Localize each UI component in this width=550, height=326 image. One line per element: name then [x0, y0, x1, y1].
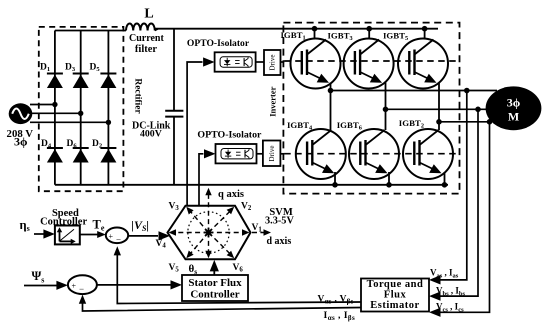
wire phase B to motor [386, 108, 487, 110]
center asterisk node [204, 228, 214, 238]
svg-text:Rectifier: Rectifier [133, 78, 143, 114]
arrow into flux summing junction [79, 295, 86, 304]
arrow into stator flux controller [171, 280, 183, 289]
arrow into upper opto-isolator [203, 57, 215, 66]
svg-text:Estimator: Estimator [370, 300, 419, 311]
svg-text:400V: 400V [140, 129, 162, 140]
wire sense line phase C [440, 122, 490, 312]
svg-text:d axis: d axis [267, 236, 292, 247]
wire leg B midpoint [385, 83, 387, 131]
diode D6 [73, 148, 89, 163]
drive block upper [264, 50, 281, 75]
wire drive lower to inverter [280, 153, 284, 155]
IGBT4 [296, 129, 346, 179]
svg-text:3.3-5V: 3.3-5V [265, 216, 294, 227]
dashed q axis [208, 194, 210, 233]
junction dot bottom bus leg B [386, 182, 392, 188]
inverter dashed enclosure [283, 23, 459, 194]
arrow into speed controller [43, 229, 55, 238]
svg-text:M: M [508, 109, 519, 123]
speed controller block [55, 226, 80, 245]
arrow Vbs Ibs into estimator [429, 292, 441, 301]
torque and flux estimator block [361, 279, 429, 312]
svg-text:IGBT6: IGBT6 [337, 120, 362, 132]
svg-text:L: L [144, 7, 153, 22]
wire sense line phase B [440, 109, 478, 296]
wire AC phase c [30, 121, 108, 123]
wire flux summing to stator flux controller [97, 284, 171, 286]
junction dot top bus leg A [312, 26, 318, 32]
svg-text:Current: Current [129, 33, 164, 44]
junction dot sense tap phase B [475, 107, 481, 113]
dashed vector V3 [191, 212, 209, 233]
wire flux reference [24, 285, 59, 287]
wire phase C to motor [439, 121, 492, 123]
wire alpha-beta voltage feedback to torque summing [117, 250, 361, 304]
dotted flux circle [188, 212, 229, 253]
stator flux controller block [182, 275, 248, 301]
dashed vector V2 [209, 212, 230, 233]
svg-text:3ϕ: 3ϕ [14, 135, 28, 149]
svg-text:IGBT2: IGBT2 [399, 118, 424, 130]
diode D4 [47, 148, 63, 163]
svg-text:|VS|: |VS| [131, 218, 149, 233]
IGBT1 [291, 39, 341, 89]
wire rectifier leg 2 [80, 31, 82, 185]
svg-text:−: − [79, 284, 84, 294]
junction dot phase A [328, 88, 334, 94]
junction dot bottom bus leg A [332, 182, 338, 188]
IGBT3 [344, 39, 394, 89]
wire emitter stub IGBT2 [444, 172, 446, 185]
diode D2 [100, 148, 116, 163]
svg-text:Drive: Drive [269, 55, 277, 71]
AC source 208V 3-phase [9, 103, 33, 124]
wire opto U1 to drive [256, 61, 264, 63]
capacitor C DC-link [165, 29, 183, 185]
wire collector stub IGBT3 [368, 29, 370, 39]
svg-text:filter: filter [135, 44, 157, 55]
wire leg C midpoint [438, 83, 440, 131]
summing junction flux [68, 275, 97, 294]
svg-text:IGBT3: IGBT3 [328, 31, 353, 43]
opto-isolator U2 [216, 144, 257, 163]
arrow into lower opto-isolator [204, 149, 216, 158]
junction dot phase B [383, 107, 389, 113]
svg-text:Stator Flux: Stator Flux [188, 277, 242, 289]
wire SVM to lower opto-isolator [199, 154, 203, 206]
dashed vector V5 [191, 233, 209, 254]
svg-text:q axis: q axis [218, 189, 244, 200]
wire sense line phase A [440, 91, 467, 280]
summing junction torque [106, 228, 128, 245]
opto-isolator U1 [215, 52, 256, 71]
wire rectifier top bus [55, 30, 126, 32]
wire DC negative bottom bus [55, 184, 448, 186]
wire emitter stub IGBT4 [334, 172, 336, 185]
svg-text:+: + [109, 232, 114, 241]
wire AC phase b [32, 112, 81, 114]
wire opto U2 to drive [257, 153, 263, 155]
arrow into flux summing left [56, 281, 68, 290]
SVM hexagon [168, 206, 251, 260]
wire Vs to SVM hexagon [128, 235, 158, 237]
svg-text:Drive: Drive [268, 146, 276, 162]
arrow into torque summing left [97, 231, 106, 238]
arrow into SVM hexagon V4 [159, 231, 171, 240]
svg-text:3ϕ: 3ϕ [507, 95, 521, 109]
wire rectifier leg 3 [107, 31, 109, 185]
dashed vector down [208, 233, 210, 253]
svg-text:Controller: Controller [40, 216, 87, 227]
wire rectifier leg 1 [54, 31, 56, 185]
svg-text:−: − [116, 234, 121, 244]
arrow Vas Ias into estimator [429, 275, 441, 284]
wire ns to speed controller [34, 233, 44, 235]
svg-text:OPTO-Isolator: OPTO-Isolator [187, 38, 250, 49]
wire collector stub IGBT5 [424, 29, 426, 39]
dashed d axis [252, 232, 265, 234]
dashed gate signal line lower row [284, 153, 459, 155]
dashed vector V1 [209, 232, 244, 234]
arrow theta-s into SVM hexagon [210, 260, 219, 272]
svg-text:Controller: Controller [190, 289, 239, 301]
dashed vector V6 [209, 233, 230, 254]
wire collector stub IGBT1 [314, 29, 316, 39]
junction dot bottom bus leg C [442, 182, 448, 188]
svg-text:OPTO-Isolator: OPTO-Isolator [197, 130, 262, 141]
diode D3 [73, 74, 89, 89]
drive block lower [263, 141, 281, 167]
wire theta-s to hexagon [213, 268, 215, 275]
arrow into torque summing junction [114, 246, 121, 255]
junction dot phase b [78, 111, 83, 116]
wire alpha-beta current feedback to flux summing [83, 298, 362, 311]
svg-text:Torque and: Torque and [367, 279, 424, 290]
junction dot top bus leg B [366, 26, 372, 32]
wire emitter stub IGBT6 [388, 172, 390, 185]
junction dot sense tap phase C [487, 119, 493, 125]
junction dot phase a [52, 102, 57, 107]
junction dot sense tap phase A [464, 88, 470, 94]
dashed gate signal line upper row [284, 60, 459, 62]
wire phase A to motor [331, 90, 498, 92]
junction dot phase C [436, 119, 442, 125]
motor 3-phase M [486, 86, 542, 130]
arrow Vcs Ics into estimator [429, 308, 441, 317]
IGBT5 [398, 39, 448, 89]
inductor L current filter [126, 24, 155, 31]
wire drive upper to inverter [281, 61, 285, 63]
rectifier dashed enclosure [39, 27, 124, 191]
wire SVM to upper opto-isolator [187, 62, 202, 206]
diode D5 [100, 74, 116, 89]
svg-text:Inverter: Inverter [268, 86, 278, 116]
svg-text:+: + [72, 281, 77, 290]
junction dot top bus leg C [422, 26, 428, 32]
diode D1 [47, 74, 63, 89]
wire speed controller to torque summing [80, 234, 98, 236]
svg-text:Flux: Flux [384, 289, 407, 300]
IGBT2 [403, 129, 453, 179]
wire leg A midpoint [330, 83, 332, 131]
svg-text:IGBT5: IGBT5 [383, 31, 408, 43]
wire DC positive bus [155, 28, 438, 30]
junction dot phase c [106, 120, 111, 125]
svg-text:IGBT1: IGBT1 [281, 30, 306, 42]
wire AC phase a [30, 104, 55, 106]
IGBT6 [349, 129, 399, 179]
dashed vector V4 [175, 232, 209, 234]
